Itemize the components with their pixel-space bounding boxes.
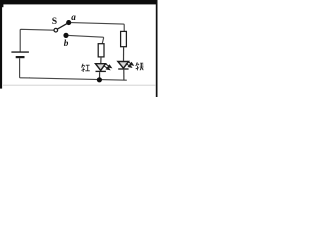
LED red: emission arrows — [103, 63, 111, 69]
LED green: cathode bar — [118, 68, 128, 70]
junction dot — [97, 77, 102, 82]
border frame bottom (faint) — [3, 85, 156, 86]
contact b dot — [63, 33, 68, 38]
border frame top bar — [0, 0, 157, 4]
label 绿 (green) drawn as strokes — [136, 62, 144, 70]
resistor R2 (right) — [121, 31, 127, 46]
wire: battery + to switch (top-left) — [20, 29, 54, 51]
wire: battery - down to bottom rail — [20, 58, 30, 78]
battery long plate (+) — [11, 51, 29, 53]
wire: green LED to bottom rail — [123, 70, 125, 81]
LED green: triangle — [118, 62, 129, 69]
switch S pivot — [54, 28, 58, 32]
LED green: emission arrows — [126, 61, 133, 67]
svg-text:a: a — [71, 12, 76, 22]
border frame right — [156, 0, 158, 97]
switch lever — [57, 24, 66, 29]
LED red: triangle — [96, 64, 106, 71]
wire: resistor R2 to green LED — [123, 47, 125, 62]
wire: red LED to junction — [99, 72, 101, 80]
wire: a to right resistor — [71, 23, 124, 32]
resistor R1 (left) — [98, 44, 104, 57]
label 红 (red) drawn as strokes — [81, 64, 90, 72]
wire: b to left resistor — [69, 35, 104, 43]
wire: resistor R1 to red LED — [100, 57, 102, 64]
contact a dot — [66, 20, 71, 25]
svg-text:S: S — [52, 16, 57, 27]
border frame left — [0, 0, 2, 89]
battery short plate (-) — [16, 56, 25, 58]
LED red: cathode bar — [96, 70, 106, 72]
wire: bottom rail — [29, 78, 127, 80]
svg-text:b: b — [64, 38, 69, 48]
